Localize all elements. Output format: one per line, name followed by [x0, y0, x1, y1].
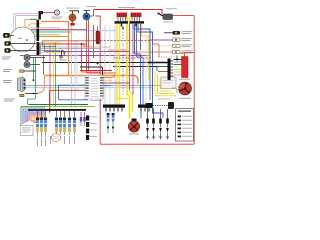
wire red vertical pair 2	[89, 20, 113, 71]
wire yellow band 2	[119, 24, 121, 105]
connector bar D pins	[39, 43, 41, 55]
wire green main run	[157, 67, 168, 72]
brake light switch	[158, 13, 195, 20]
handlebar switch right red block	[131, 13, 142, 18]
black connector stack bottom center	[86, 116, 97, 141]
headlight circle	[10, 27, 35, 52]
wire red over block	[80, 70, 112, 72]
junction dot 2	[122, 27, 124, 29]
wire gray band to alternator	[25, 85, 161, 87]
spark plug column 1	[146, 108, 149, 140]
wire blue mid run	[59, 85, 89, 100]
wire red elbow to coil	[84, 44, 93, 47]
wire red coil lead	[97, 26, 99, 31]
handlebar switch left red block	[117, 13, 128, 18]
wire brown horizontal	[42, 40, 94, 42]
wire red bottom run	[100, 122, 194, 144]
winker relay blue	[83, 11, 94, 21]
wire magenta vertical center	[132, 30, 134, 95]
wire light green bottom run	[21, 106, 95, 108]
wire yellow thin vertical	[53, 42, 55, 106]
horn label	[2, 56, 11, 59]
wire fan orange wide	[33, 36, 69, 38]
wire orange curve into switch area	[38, 76, 45, 93]
spark plug column 3	[159, 109, 162, 140]
junction dot 3	[97, 63, 99, 65]
position bulb	[3, 33, 14, 38]
flasher relay	[69, 11, 79, 26]
main connector bar right	[168, 59, 174, 81]
wire dashed gray vertical	[122, 26, 124, 95]
wire gray vertical left	[71, 20, 73, 108]
connector bar D	[37, 42, 40, 55]
wire purple vertical center	[129, 24, 131, 90]
wire red vertical pair 1	[87, 20, 116, 73]
legend box	[176, 109, 194, 142]
spark plug column 2	[152, 108, 155, 140]
rectifier label	[158, 98, 170, 101]
right connector item 4	[173, 50, 193, 54]
spark advancer plug	[168, 102, 174, 109]
wire blue stub to coil	[140, 108, 142, 119]
wire blue bend right A	[133, 24, 150, 60]
contact breaker bar	[146, 103, 153, 108]
coil connector bar right	[138, 105, 150, 108]
wire red right side down	[193, 16, 195, 143]
handlebar switch label	[118, 7, 135, 8]
ignition switch label 2	[4, 98, 15, 101]
plug column group 1c	[44, 118, 47, 147]
wire orange mid drop	[108, 50, 127, 76]
wire red up at coil	[93, 10, 95, 17]
wire dashed red mid	[113, 57, 152, 59]
dimmer switch symbol	[59, 51, 67, 61]
connector bar C	[37, 29, 40, 42]
speedometer lamp circle	[41, 10, 60, 15]
fuse arrow	[176, 56, 178, 60]
wire blue bend right B	[138, 24, 163, 118]
wire dashed brown top	[94, 40, 151, 42]
plug column group 2a	[50, 118, 58, 145]
starter motor red circle	[128, 119, 139, 135]
dashed red near battery	[158, 56, 176, 58]
wire yellow loop near battery 3	[160, 78, 172, 91]
wire purple out of block	[104, 82, 130, 84]
wire blue right extra	[149, 60, 151, 100]
wire black elbow into junction block	[80, 67, 103, 75]
wire orange bend into block	[104, 72, 116, 78]
neutral indicator ellipse	[51, 134, 60, 142]
wire fan from bar C red	[31, 29, 86, 31]
wire gray bundle 1	[104, 25, 106, 105]
handlebar bar stub left	[121, 24, 123, 27]
wire orange circle arc	[29, 24, 42, 27]
handlebar wires drop right	[132, 17, 140, 21]
wire yellow band 1	[116, 24, 118, 105]
wire red vertical x81	[82, 44, 101, 72]
wire blue out of block	[104, 85, 111, 87]
wire white vertical right	[145, 36, 147, 104]
plug column group 1	[36, 118, 39, 147]
wire orange to regulator connector	[132, 51, 173, 53]
wire red left long down	[96, 16, 101, 122]
plug column single 3	[68, 118, 71, 145]
wire green bottom left run	[29, 104, 88, 106]
wire yellow band 3	[127, 17, 130, 119]
wire black to right bar thick	[148, 62, 168, 64]
connector bar B	[37, 20, 40, 28]
brake switch label	[166, 7, 177, 10]
center junction connector block	[85, 76, 104, 100]
ignition switch label	[3, 79, 12, 82]
wire orange top small	[41, 22, 69, 76]
horn button label	[3, 68, 12, 71]
handlebar connector bar right	[130, 21, 145, 23]
plug column group 2c	[63, 118, 66, 145]
wire orange meter corner	[25, 20, 38, 28]
pilot bulb 1	[5, 41, 37, 45]
condenser plug 2	[112, 113, 115, 133]
wire fan green	[31, 31, 72, 33]
wire brown vertical	[93, 25, 95, 58]
battery red lead up	[185, 53, 195, 57]
wire purple main run	[20, 40, 173, 56]
plug column group 1b	[40, 118, 43, 147]
wire red stub to bar	[158, 71, 168, 73]
purple mini plug 1	[80, 112, 82, 126]
plug column single 4	[73, 118, 76, 145]
svg-text:HEAD: HEAD	[17, 37, 23, 40]
headlight dot	[26, 39, 28, 41]
bottom connector rail	[28, 109, 86, 117]
wire brown vertical left	[43, 55, 45, 75]
wire fan yellow lower	[41, 42, 60, 44]
wire green thin vertical	[55, 42, 57, 106]
wire purple vertical 2	[140, 24, 142, 50]
condenser plug 1	[107, 113, 110, 133]
brake switch sublabel	[163, 21, 173, 24]
spark plug column 4	[166, 109, 169, 140]
right connector item 2	[155, 38, 193, 42]
wire light blue band lower	[25, 87, 152, 89]
ignition coil right	[96, 31, 100, 44]
wire black second run	[113, 66, 168, 68]
wire blue from handlebar right 2	[137, 24, 144, 105]
junction dot 4	[149, 62, 151, 64]
rectifier box	[161, 77, 176, 89]
speedometer label	[51, 16, 63, 19]
rectifier gray lead	[172, 88, 177, 93]
handlebar bar stub right	[135, 24, 137, 27]
wire light blue headlight to meter	[14, 14, 39, 29]
wire yellow right vertical	[142, 24, 149, 80]
points dashed link	[153, 105, 169, 107]
horn circle 2	[24, 62, 40, 68]
wire green vertical pair horn 2	[28, 57, 36, 105]
wire purple mid fan	[45, 44, 130, 52]
red junction dot	[81, 43, 83, 45]
flasher box bottom left	[21, 126, 34, 136]
wire light blue long run	[32, 30, 117, 32]
handlebar wires drop left	[118, 17, 126, 21]
horn button connector	[20, 70, 37, 73]
wire yellow loop near battery 1	[155, 72, 176, 96]
wire yellow loop near battery 2	[158, 75, 175, 94]
wire fan yellow 2	[41, 52, 70, 54]
wire fan gray	[41, 46, 110, 48]
plug column group 2b	[59, 118, 62, 135]
wire gray bundle 3	[114, 25, 116, 105]
battery	[174, 57, 191, 80]
wire gray bundle 2	[109, 25, 111, 105]
wire orange main harness band	[45, 76, 139, 85]
wire yellow band 4	[130, 17, 133, 112]
pilot bulb 2	[5, 48, 37, 52]
nested loop wires left bottom	[21, 107, 45, 125]
wire fan black 2	[41, 48, 100, 50]
wire fan green 2	[41, 50, 60, 52]
right connector item 3	[152, 44, 193, 48]
connector bar A top	[39, 11, 41, 20]
wire red mid horizontal	[50, 90, 87, 113]
horn circle 1	[24, 55, 45, 61]
alternator circle	[178, 82, 191, 99]
handlebar connector bar left	[115, 21, 129, 23]
wire yellow elbow fill	[118, 98, 129, 100]
wire gray short fan	[30, 27, 60, 29]
ignition switch	[18, 77, 39, 97]
flasher relay label	[66, 7, 79, 10]
wire fan lightgreen	[32, 34, 60, 36]
wire pink meter	[16, 16, 39, 31]
coil connector bar center	[103, 105, 125, 108]
wire redbrown elbow	[152, 44, 159, 57]
wire black main run	[42, 62, 168, 64]
wire teal stub	[30, 18, 37, 20]
wire green vertical pair horn	[33, 57, 35, 80]
wire magenta vertical	[49, 44, 51, 112]
wire yellow out of block	[104, 79, 113, 81]
wire blue from handlebar right 1	[135, 24, 141, 105]
wire fan red mid	[41, 43, 86, 45]
junction block label	[90, 99, 102, 102]
right connector item 1	[164, 31, 193, 35]
purple mini plug 2	[83, 112, 85, 126]
wire main red battery line top	[94, 10, 163, 15]
